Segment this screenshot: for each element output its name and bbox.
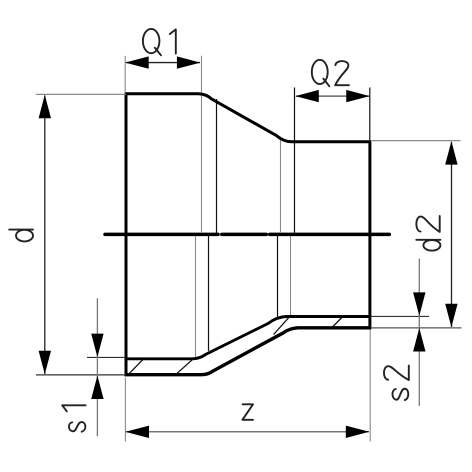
dimension Q2 right arrow <box>346 90 370 102</box>
dimension s2 down arrow <box>413 292 425 316</box>
dimension s2 up arrow <box>413 328 425 352</box>
Q1 extension left <box>124 56 126 92</box>
label Q2-Q <box>312 60 330 86</box>
label Q2-2 <box>335 61 349 85</box>
dimension Q2 left arrow <box>295 90 319 102</box>
dimension Z right arrow <box>346 426 370 438</box>
label s2-2 <box>384 366 409 381</box>
hatch 3 <box>274 317 290 335</box>
Z extension left <box>124 378 126 442</box>
dimension d2 top arrow <box>445 141 457 165</box>
tangent line top left dark <box>216 99 218 233</box>
d extension top <box>36 93 126 95</box>
body bottom outer wall <box>125 328 371 375</box>
dimension Q1 left arrow <box>125 56 149 68</box>
dimension Q2 line <box>296 95 369 97</box>
dimension Q1 line <box>126 62 200 64</box>
hatch 2 <box>176 359 193 375</box>
tangent line bottom right dark <box>277 236 279 320</box>
body left edge <box>125 92 128 376</box>
Z extension right <box>369 330 371 442</box>
dimension d bottom arrow <box>39 351 51 375</box>
Q2 extension right <box>369 88 371 141</box>
label d <box>9 230 33 242</box>
label Z <box>242 404 253 420</box>
tangent line top left gray (Q1 right extension) <box>201 56 203 233</box>
dimension Q1 right arrow <box>177 56 201 68</box>
dimension Z left arrow <box>126 426 150 438</box>
dimension s1 line <box>96 298 98 436</box>
label Q1-Q <box>143 29 161 55</box>
dimension d top arrow <box>39 95 51 119</box>
dimension Z line <box>126 431 369 433</box>
body bottom inner wall <box>125 317 371 359</box>
dimension d2 bottom arrow <box>445 304 457 328</box>
dimension s2 line <box>418 259 420 406</box>
body top profile <box>126 94 371 142</box>
dimension d line <box>44 96 46 375</box>
tangent line bottom right gray <box>290 236 292 318</box>
label s1-1 <box>62 405 85 411</box>
tangent line bottom left dark <box>208 236 210 351</box>
d2 extension top <box>372 140 461 142</box>
label s2-s <box>392 389 408 400</box>
hatch 1 <box>129 359 144 374</box>
label Q1-1 <box>170 29 176 53</box>
tangent line bottom left gray <box>195 236 197 357</box>
d2/s2 extension bottom long <box>371 327 462 329</box>
hatch 4 <box>333 318 342 328</box>
dimension s1 down arrow <box>91 334 103 358</box>
tangent line top right gray <box>280 137 282 234</box>
centerline <box>105 233 389 237</box>
d extension bottom <box>36 374 126 376</box>
label s1-s <box>69 422 85 432</box>
label d2-d <box>416 240 440 251</box>
tangent line top right dark (Q2 left extension) <box>294 88 296 234</box>
dimension s1 up arrow <box>91 376 103 400</box>
s2 extension upper <box>371 315 429 317</box>
s1 extension upper <box>87 356 126 358</box>
body right edge <box>368 140 371 329</box>
dimension d2 line <box>451 142 453 327</box>
label d2-2 <box>416 216 439 232</box>
